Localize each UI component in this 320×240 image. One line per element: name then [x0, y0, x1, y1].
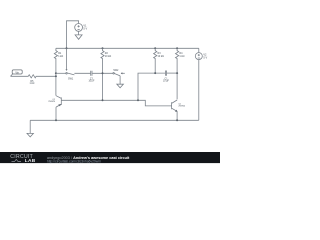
resistor R1: [54, 48, 63, 95]
node dot rail/R3: [154, 47, 156, 49]
svg-text:5 V: 5 V: [203, 56, 207, 59]
wire bottom rail: [30, 119, 199, 121]
capacitor C1: [163, 71, 170, 83]
svg-text:1 kΩ: 1 kΩ: [58, 55, 63, 58]
wire top rail: [56, 47, 199, 49]
resistor R3: [154, 48, 164, 73]
ground bottom left: [27, 133, 33, 137]
wire C1 branch (R3/C1 horizontal): [138, 73, 165, 100]
resistor R4: [176, 48, 185, 99]
svg-text:SW1: SW1: [68, 78, 74, 81]
wire rail to V2: [198, 48, 200, 52]
node dot C1 wire / R4 line: [176, 72, 178, 74]
wire bottom rail to ground: [29, 120, 31, 133]
voltage source V2: [195, 53, 207, 60]
svg-text:1 kΩ: 1 kΩ: [179, 55, 184, 58]
node dot rail/R4: [176, 47, 178, 49]
svg-text:Vin: Vin: [15, 70, 19, 74]
wire SW2 to ground: [119, 76, 121, 84]
ground under V1: [75, 31, 82, 39]
svg-text:1 kΩ: 1 kΩ: [30, 83, 35, 85]
wire V2 down to bottom rail: [198, 60, 200, 121]
svg-text:10 kΩ: 10 kΩ: [105, 55, 112, 58]
ground under SW2: [117, 84, 124, 88]
node dot R2 / base bus: [102, 99, 104, 101]
wire base bus Q2 to step: [61, 100, 171, 106]
wire V1 feed: [67, 21, 79, 49]
svg-text:5 V: 5 V: [83, 28, 87, 31]
wire mid left (to SW1): [56, 72, 66, 74]
svg-text:10 µF: 10 µF: [163, 81, 170, 83]
wire Q1 emitter down: [176, 111, 178, 120]
node dot rail/R2: [102, 47, 104, 49]
wire SW1 to C2: [74, 72, 90, 74]
switch SW2: [113, 69, 125, 76]
voltage source V1: [75, 24, 88, 32]
svg-text:SW2: SW2: [113, 69, 119, 72]
node dot Q2 emitter / bottom rail: [55, 119, 57, 121]
node dot mid wire / R1 line: [55, 72, 57, 74]
svg-text:LAB: LAB: [25, 158, 36, 164]
transistor Q2: [48, 96, 61, 107]
node dot Q1 emitter / bottom rail: [176, 119, 178, 121]
footer bar: [0, 152, 220, 164]
node dot C1 branch / base bus: [137, 99, 139, 101]
svg-text:10 µF: 10 µF: [88, 81, 95, 83]
svg-text:2N3906: 2N3906: [48, 101, 55, 103]
node dot rail/V1/SW1: [66, 47, 68, 49]
wire Q2 emitter down: [55, 107, 57, 120]
capacitor C2: [88, 71, 95, 83]
transistor Q1: [172, 100, 185, 112]
switch SW1: [66, 48, 75, 80]
svg-text:http://circuitlab.com/c8c3nha6: http://circuitlab.com/c8c3nha6v29wm: [47, 159, 101, 163]
input flag: [11, 70, 23, 76]
resistor R2: [101, 48, 111, 100]
resistor R5 (input, horizontal): [11, 75, 56, 85]
svg-text:2N3904: 2N3904: [178, 106, 185, 108]
wire C2 to SW2: [92, 72, 113, 74]
node dot R2 / mid wire: [102, 72, 104, 74]
wire C1 to R4 line: [167, 72, 177, 74]
svg-text:10 kΩ: 10 kΩ: [158, 55, 165, 58]
node dot input wire / R1 line: [55, 75, 57, 77]
node dot R3 / C1 wire: [154, 72, 156, 74]
